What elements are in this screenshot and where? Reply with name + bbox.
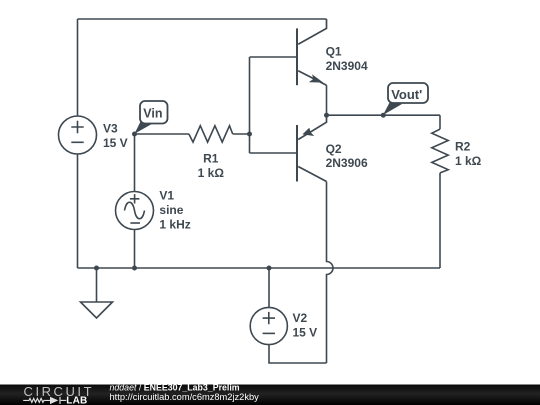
svg-text:V3: V3: [103, 122, 118, 136]
svg-text:sine: sine: [159, 203, 183, 217]
svg-text:V2: V2: [293, 311, 308, 325]
wire R1 left lead: [135, 133, 189, 135]
CircuitLab logo: [23, 384, 94, 405]
svg-text:Vin: Vin: [143, 107, 162, 121]
wire left vertical lower: [77, 154, 79, 268]
flag Vout': [383, 83, 428, 115]
svg-text:Vout': Vout': [391, 87, 422, 102]
wire R1 right lead: [233, 133, 250, 135]
wire R2 top lead: [439, 115, 441, 129]
flag Vin: [135, 101, 168, 134]
wire Q2 collector down with hop over rail: [327, 182, 334, 364]
node V1 bottom junction: [132, 266, 137, 271]
wire top rail: [78, 18, 327, 20]
footer text: [110, 383, 260, 402]
svg-text:http://circuitlab.com/c6mz8m2j: http://circuitlab.com/c6mz8m2jz2kby: [110, 392, 260, 402]
wire R2 bottom lead: [439, 173, 441, 268]
voltage source V2: [250, 307, 287, 344]
node Vin: [132, 132, 137, 137]
wire bottom ground rail: [78, 267, 441, 269]
svg-text:V1: V1: [159, 189, 174, 203]
svg-text:R2: R2: [455, 140, 471, 154]
svg-text:1 kHz: 1 kHz: [159, 217, 190, 231]
transistor Q2: [297, 115, 327, 181]
transistor Q1: [297, 19, 327, 85]
resistor R2: [432, 129, 448, 173]
voltage source V1 (sine): [116, 192, 154, 230]
resistor R1: [189, 126, 233, 142]
wire output node to R2: [327, 114, 441, 116]
svg-text:Q1: Q1: [326, 45, 342, 59]
svg-text:15 V: 15 V: [293, 325, 318, 339]
arrow Q1 emitter: [309, 74, 323, 82]
node output junction: [324, 113, 329, 118]
wire Vin node to V1: [134, 134, 136, 192]
node V2 top junction: [267, 266, 272, 271]
voltage source V3: [59, 116, 97, 154]
ground: [81, 268, 113, 318]
svg-text:2N3904: 2N3904: [326, 59, 368, 73]
svg-text:R1: R1: [203, 152, 219, 166]
wire Q1 emitter to output node: [326, 85, 328, 115]
arrow Q2 emitter: [302, 128, 314, 136]
svg-text:1 kΩ: 1 kΩ: [198, 166, 225, 180]
svg-text:LAB: LAB: [66, 396, 87, 405]
wire base ladder vertical: [249, 57, 251, 153]
wire Q1 base: [250, 56, 298, 58]
wire left vertical upper: [77, 19, 79, 116]
wire V1 bottom lead: [134, 230, 136, 269]
wire Q2 base: [250, 152, 298, 154]
wire V2 top lead: [268, 268, 270, 308]
svg-text:Q2: Q2: [326, 142, 342, 156]
svg-text:15 V: 15 V: [103, 136, 128, 150]
node ground junction: [94, 266, 99, 271]
svg-text:2N3906: 2N3906: [326, 156, 368, 170]
wire V2 bottom to Q2 collector: [269, 345, 327, 363]
node Vout': [381, 113, 386, 118]
svg-text:1 kΩ: 1 kΩ: [455, 154, 482, 168]
node base ladder junction: [247, 132, 252, 137]
